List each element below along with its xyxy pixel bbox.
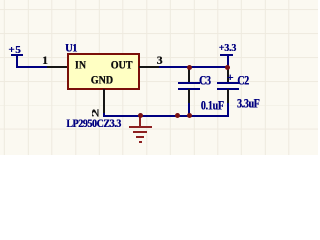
pin number 1 (42, 57, 48, 65)
power +5 bar (11, 54, 23, 56)
capacitor C2 bottom lead (227, 89, 229, 103)
power +5 label (8, 46, 21, 54)
power +3.3 label (219, 45, 236, 53)
wire C3 bottom to rail (188, 103, 190, 116)
power +3.3 bar (220, 54, 233, 56)
wire pin2 to bottom rail (103, 113, 105, 117)
capacitor C3 bottom plate (178, 88, 200, 90)
pin number 2 (rotated) (93, 109, 99, 118)
capacitor C3 top lead (188, 67, 190, 83)
capacitor C2 top plate (217, 82, 239, 84)
junction ground tap (138, 113, 143, 118)
regulator U1 body (67, 53, 140, 90)
pin name OUT (111, 62, 133, 71)
ground bar 2 (133, 131, 148, 133)
ground stem (139, 116, 141, 128)
wire bottom rail (103, 115, 229, 117)
capacitor C3 top plate (178, 82, 200, 84)
capacitor C2 plus sign (227, 73, 234, 81)
value LP2950CZ3.3 (66, 120, 121, 129)
capacitor C2 bottom plate (217, 88, 239, 90)
value 0.1uF (201, 102, 224, 112)
power +5 stem (16, 54, 18, 67)
junction C2 / +3.3 (225, 65, 230, 70)
capacitor C3 bottom lead (188, 89, 190, 103)
wire OUT to C2 (159, 66, 229, 68)
designator U1 (65, 45, 77, 54)
pin name IN (75, 62, 86, 71)
pin 2 of U1 (GND) (103, 89, 105, 113)
ground bar 3 (136, 136, 144, 138)
junction bottom rail joint (175, 113, 180, 118)
pin 3 of U1 (139, 66, 159, 68)
power +3.3 stem (227, 54, 229, 67)
wire C2 bottom to rail (227, 103, 229, 117)
junction C3 bottom (187, 113, 192, 118)
ground bar 4 (139, 141, 142, 143)
pin number 3 (157, 57, 163, 65)
junction C3 top (187, 65, 192, 70)
wire +5 to pin1 (16, 66, 48, 68)
designator C2 (237, 77, 248, 87)
value 3.3uF (237, 100, 259, 110)
pin name GND (91, 77, 113, 86)
designator C3 (199, 77, 210, 87)
ground bar 1 (129, 126, 153, 128)
capacitor C2 top lead (227, 68, 229, 83)
pin 1 of U1 (47, 66, 68, 68)
